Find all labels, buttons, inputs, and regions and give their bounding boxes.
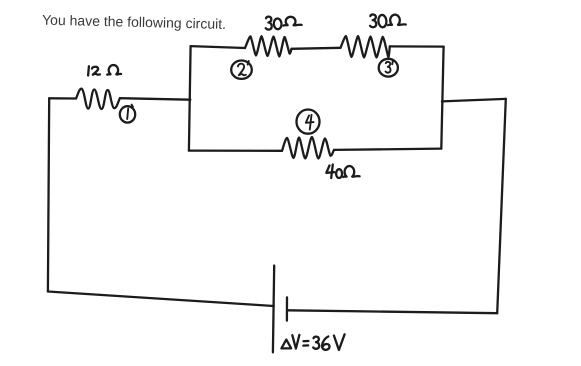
wire between R2 and R3 [292, 48, 341, 49]
node circle 2 [231, 60, 252, 78]
label delta V = 36 V [281, 340, 291, 349]
wire R3 to top-right corner [390, 45, 444, 47]
right rail vertical [497, 99, 506, 313]
node circle 1 [120, 106, 135, 122]
resistor R3 30ohm zigzag [341, 36, 390, 58]
label 12 ohm [87, 66, 90, 75]
node circle 3 [379, 59, 398, 77]
label 30 ohm (second) [370, 14, 376, 27]
box bottom edge right segment [334, 149, 441, 150]
node circle 4 [297, 110, 320, 134]
box bottom edge left segment [189, 149, 282, 151]
wire top-left stub [49, 97, 76, 99]
battery short plate [286, 297, 288, 320]
label 30 ohm (first) [266, 17, 272, 30]
battery long plate [273, 266, 274, 353]
branch wire box to right rail [442, 99, 506, 102]
bottom-right wire to battery [287, 310, 497, 313]
wire R1 to box [120, 98, 190, 100]
bottom-left wire to battery [48, 292, 274, 307]
box right edge [441, 47, 443, 149]
box left edge [189, 46, 191, 151]
resistor R4 40ohm zigzag [282, 137, 334, 159]
resistor R2 30ohm zigzag [245, 36, 292, 56]
resistor R1 12ohm zigzag [76, 89, 120, 109]
left rail vertical [48, 98, 49, 291]
box top edge left segment [191, 46, 245, 48]
label 40 ohm [326, 166, 334, 173]
